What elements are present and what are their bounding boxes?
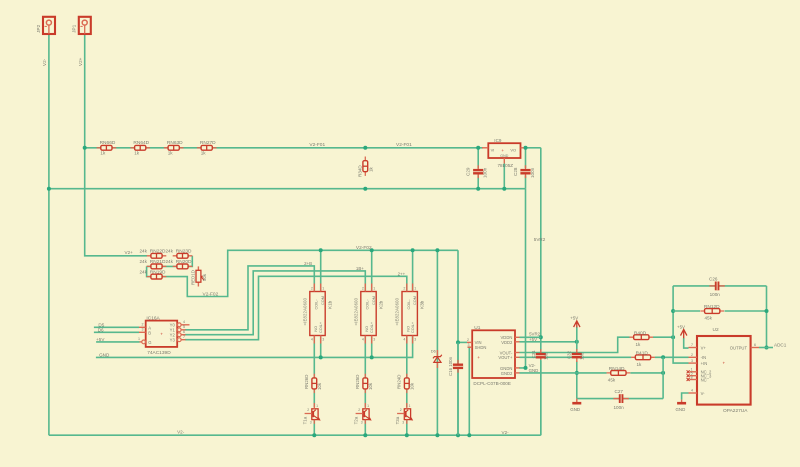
svg-text:2: 2: [307, 408, 309, 412]
svg-text:G: G: [148, 340, 151, 345]
wire feedback left column to +IN: [673, 286, 688, 363]
junction K2 COM: [370, 248, 374, 252]
svg-text:1: 1: [414, 286, 416, 290]
svg-text:COM: COM: [413, 296, 417, 305]
wire net VOUT+ from U1 to R41D: [520, 356, 632, 358]
wire relay contact column x=406.8 to driver: [406, 336, 408, 379]
svg-text:4: 4: [183, 320, 185, 324]
resistor RN27D: [197, 140, 217, 156]
svg-text:RED1D: RED1D: [191, 270, 196, 285]
svg-text:3: 3: [361, 420, 363, 424]
junction driver emitter on V2- rail x=365.3: [363, 433, 367, 437]
zener diode D6: [431, 348, 442, 368]
svg-text:NC: NC: [701, 377, 707, 382]
svg-text:10k: 10k: [368, 382, 373, 390]
svg-text:COIL+: COIL+: [370, 321, 374, 333]
svg-text:1k: 1k: [100, 151, 106, 156]
svg-text:IC16A: IC16A: [146, 316, 160, 322]
resistor RN23D: [166, 249, 193, 259]
svg-text:2: 2: [691, 353, 693, 357]
svg-text:COIL+: COIL+: [319, 321, 323, 333]
svg-text:+: +: [160, 332, 163, 337]
junction C28 top: [524, 146, 528, 150]
supply arrow +5V at op-amp V+: [677, 324, 687, 338]
svg-text:V2+: V2+: [125, 250, 134, 255]
svg-text:R40D: R40D: [634, 330, 647, 336]
svg-text:V2-: V2-: [502, 430, 510, 435]
svg-text:RN20D: RN20D: [176, 259, 192, 265]
svg-text:74AC139D: 74AC139D: [147, 350, 171, 356]
op-amp U2 OPA227UA: [687, 327, 759, 414]
svg-text:50k: 50k: [202, 273, 207, 281]
svg-text:100n: 100n: [530, 167, 535, 178]
svg-text:+IN: +IN: [701, 361, 708, 366]
junction driver emitter on V2- rail x=406.8: [405, 433, 409, 437]
svg-text:10u: 10u: [544, 352, 549, 360]
junction driver emitter on V2- rail x=314.3: [312, 433, 316, 437]
svg-text:4: 4: [691, 389, 693, 393]
svg-text:C28: C28: [513, 167, 518, 176]
wire feedback RN12D line: [673, 310, 700, 312]
svg-text:K2b: K2b: [378, 300, 383, 309]
wire net +5V to IC1 G pin: [96, 341, 139, 343]
junction feedback at RN12D left: [671, 309, 675, 313]
wire net V2-F02 branch to U1 VIN pin: [458, 341, 467, 343]
svg-text:COIL-: COIL-: [314, 299, 318, 310]
svg-text:1: 1: [138, 337, 140, 341]
svg-text:VDD2: VDD2: [501, 340, 513, 345]
capacitor C16: [448, 342, 463, 435]
trimmer RED1D: [191, 266, 207, 286]
svg-text:RN27D: RN27D: [200, 140, 216, 146]
svg-text:V2+: V2+: [78, 57, 83, 66]
svg-text:78L05Z: 78L05Z: [498, 163, 514, 168]
svg-text:VI: VI: [491, 148, 495, 153]
svg-text:=IE822A0600: =IE822A0600: [353, 297, 358, 325]
svg-text:GND: GND: [676, 407, 686, 412]
svg-text:T2a: T2a: [354, 416, 359, 424]
svg-text:4: 4: [362, 337, 364, 341]
junction R34D bottom: [363, 187, 367, 191]
svg-text:V-: V-: [701, 391, 706, 396]
transistor T3a NPN: [395, 403, 413, 424]
resistor RN63D: [164, 140, 184, 156]
junction C29 top: [476, 146, 480, 150]
junction +5V at arrow column: [575, 340, 579, 344]
junction feedback at output: [765, 346, 769, 350]
wire relay K2 coil- to GND rail: [371, 336, 373, 358]
wire op-amp V- to GND: [682, 393, 689, 400]
capacitor C29: [466, 148, 488, 189]
svg-text:K3b: K3b: [420, 300, 425, 309]
supply arrow +5V at C32 column: [570, 316, 580, 328]
svg-text:100n: 100n: [483, 167, 488, 178]
resistor RN12D: [700, 304, 724, 320]
capacitor C32: [566, 349, 584, 362]
capacitor C26: [709, 277, 725, 298]
junction V2-F02 VIN branch: [456, 340, 460, 344]
wire net coil B from IC1 Y2 to relay K2: [185, 271, 365, 335]
svg-text:2: 2: [358, 408, 360, 412]
svg-text:COM: COM: [372, 296, 376, 305]
wire net C27 line from GND to C27 column: [577, 398, 663, 400]
wire net coil C from IC1 Y3 to relay K3: [185, 276, 407, 339]
wire net V2- middle rail under IC9: [49, 188, 526, 190]
svg-text:1k: 1k: [134, 151, 140, 156]
svg-text:RN63D: RN63D: [167, 140, 183, 146]
svg-text:V2-: V2-: [42, 58, 47, 66]
junction R40D at feedback column: [671, 335, 675, 339]
svg-text:24k: 24k: [140, 259, 148, 264]
wire net +5V from U1 VDD to arrow column: [520, 341, 577, 343]
svg-text:1k: 1k: [201, 151, 207, 156]
svg-text:V2-F02: V2-F02: [203, 291, 219, 297]
svg-text:IC9: IC9: [494, 138, 502, 143]
wire net D6 input: [94, 331, 139, 333]
wire relay K2 COM drop from V2-F02: [371, 250, 373, 291]
svg-text:VO: VO: [510, 148, 516, 153]
voltage regulator IC9: [482, 138, 527, 189]
relay K1b reed relay: [302, 284, 332, 344]
junction +5V riser at 5VR2 stub: [539, 335, 543, 339]
svg-text:RN24D: RN24D: [397, 375, 402, 389]
junction U1 GNDN at V2- column: [524, 366, 528, 370]
junction V2-F01 at JP1 wire: [83, 146, 87, 150]
transistor T1a NPN: [303, 403, 321, 424]
svg-text:24k: 24k: [140, 249, 148, 254]
resistor R34D: [358, 157, 374, 178]
svg-text:5VR2: 5VR2: [534, 237, 546, 242]
svg-text:10k: 10k: [410, 382, 415, 390]
resistor RN24D: [397, 374, 415, 393]
svg-text:+5V: +5V: [570, 316, 578, 321]
svg-text:6: 6: [754, 343, 756, 347]
svg-text:C16 100n: C16 100n: [448, 356, 453, 376]
svg-text:45k: 45k: [608, 378, 616, 383]
junction zener branch top: [435, 248, 439, 252]
svg-text:7: 7: [183, 335, 185, 339]
svg-text:V2-F01: V2-F01: [396, 142, 412, 148]
svg-text:3: 3: [373, 337, 375, 341]
wire net V2-F01 top resistor row: [85, 147, 483, 149]
svg-text:2: 2: [400, 408, 402, 412]
resistor RN19D: [140, 269, 167, 279]
svg-text:RN14D: RN14D: [609, 366, 625, 372]
svg-text:RN19D: RN19D: [150, 269, 166, 275]
svg-text:RN26D: RN26D: [304, 375, 309, 389]
wire relay contact column x=314.3 to driver: [313, 336, 315, 379]
junction RN12D right: [765, 309, 769, 313]
svg-text:1: 1: [322, 286, 324, 290]
svg-text:1: 1: [316, 404, 318, 408]
svg-text:1: 1: [367, 404, 369, 408]
svg-text:100n: 100n: [710, 292, 721, 297]
svg-text:4: 4: [311, 337, 313, 341]
svg-text:SHDN: SHDN: [475, 345, 487, 350]
svg-text:6: 6: [183, 330, 185, 334]
wire net SHDN of U1 down to V2- rail: [468, 347, 470, 435]
svg-text:GND: GND: [529, 368, 539, 373]
junction zener branch bottom: [435, 433, 439, 437]
svg-text:2: 2: [311, 286, 313, 290]
svg-text:+: +: [723, 361, 726, 366]
wire net GND rail from IC1 area to relay K3: [96, 336, 413, 358]
svg-text:COIL-: COIL-: [365, 299, 369, 310]
svg-text:Y3: Y3: [170, 338, 176, 343]
svg-text:GND: GND: [500, 154, 508, 158]
svg-text:GND: GND: [570, 407, 580, 412]
wire net 5VR2 stub from U1 VDDN: [520, 336, 541, 338]
resistor RN14D: [607, 366, 631, 383]
svg-text:RN22D: RN22D: [150, 249, 166, 255]
svg-text:NO: NO: [314, 326, 318, 332]
wire divider row 2: [147, 256, 193, 267]
svg-text:NO: NO: [365, 326, 369, 332]
resistor RN20D: [166, 259, 193, 269]
wire net V2-F02 down to U1 VIN: [457, 250, 459, 435]
resistor R40D: [629, 330, 653, 347]
junction GND2 at C27 column: [661, 371, 665, 375]
svg-text:RN25D: RN25D: [355, 375, 360, 389]
svg-text:2+B: 2+B: [304, 261, 312, 266]
svg-text:1B+: 1B+: [356, 266, 364, 271]
wire relay K1 coil- to GND rail: [320, 336, 322, 358]
junction arrow column at GND2 line: [575, 371, 579, 375]
resistor R41D: [631, 350, 655, 366]
wire net GND2 from U1 through RN14D: [520, 372, 607, 374]
svg-text:C26: C26: [709, 277, 718, 282]
svg-text:3: 3: [414, 337, 416, 341]
svg-text:C27: C27: [615, 389, 624, 394]
svg-text:U2: U2: [713, 327, 719, 333]
svg-text:10u: 10u: [580, 352, 585, 360]
svg-text:+: +: [501, 148, 504, 153]
svg-text:45k: 45k: [705, 315, 713, 320]
wire +5V arrow column through cap C32 down to GND: [576, 327, 578, 350]
wire net R40D out to feedback column: [653, 336, 673, 338]
svg-text:2: 2: [362, 286, 364, 290]
svg-text:3: 3: [691, 359, 693, 363]
capacitor C31: [531, 349, 549, 435]
svg-text:T1a: T1a: [303, 416, 308, 424]
svg-text:+5V: +5V: [96, 337, 105, 342]
resistor RN66D: [97, 140, 117, 156]
svg-text:COM: COM: [321, 296, 325, 305]
wire net V2- bottom rail: [49, 434, 541, 436]
svg-text:RN23D: RN23D: [176, 249, 192, 255]
relay K3b reed relay: [395, 284, 425, 344]
wire net V2+ from JP1 down to divider cluster: [85, 34, 147, 256]
connector JP2: [36, 17, 55, 34]
capacitor C27: [613, 389, 628, 410]
wire net D5 input: [94, 326, 139, 328]
wire relay contact column x=365.3 to driver: [364, 336, 366, 379]
wire net +5V riser from IC9 output down to U1: [540, 148, 542, 350]
resistor RN22D: [140, 249, 167, 259]
svg-text:R41D: R41D: [636, 350, 649, 356]
svg-text:2: 2: [142, 323, 144, 327]
junction C16 column on V2- rail: [456, 433, 460, 437]
svg-text:3: 3: [310, 420, 312, 424]
svg-text:D6: D6: [98, 327, 104, 332]
svg-text:VOUT+: VOUT+: [498, 355, 513, 360]
svg-text:1: 1: [373, 286, 375, 290]
svg-text:COIL-: COIL-: [407, 299, 411, 310]
wire relay K3 COM drop from V2-F02: [412, 250, 414, 291]
svg-text:2: 2: [467, 338, 469, 342]
resistor RN25D: [355, 374, 373, 393]
wire net V2- drop to U1 GNDN pin: [519, 189, 526, 368]
junction -IN at C27 column: [661, 355, 665, 359]
junction C29 bottom: [476, 187, 480, 191]
svg-text:C32: C32: [566, 350, 571, 359]
wire net ADC1 op-amp output: [759, 347, 773, 349]
connector JP1: [72, 17, 91, 34]
svg-text:COIL+: COIL+: [411, 321, 415, 333]
svg-text:8: 8: [691, 375, 693, 379]
svg-text:+: +: [477, 355, 480, 360]
svg-text:10k: 10k: [317, 382, 322, 390]
resistor RN64D: [130, 140, 150, 156]
junction K3 COM: [411, 248, 415, 252]
svg-text:7: 7: [691, 343, 693, 347]
wire net V2- from JP2 down left side: [48, 34, 50, 436]
wire C27 column vertical: [662, 357, 664, 398]
wire net V2-F01 from IC9 VO to +5V riser: [525, 147, 541, 149]
svg-text:C31: C31: [531, 350, 536, 359]
svg-text:RN12D: RN12D: [704, 304, 720, 310]
svg-text:3: 3: [402, 420, 404, 424]
junction R34D top: [363, 146, 367, 150]
dc-dc converter U1 DCPL-C07B-000E: [467, 325, 520, 386]
resistor RN26D: [304, 374, 322, 393]
svg-text:V2-: V2-: [177, 429, 185, 434]
svg-text:B: B: [148, 331, 151, 336]
svg-text:K1b: K1b: [327, 300, 332, 309]
svg-text:V2-F01: V2-F01: [309, 142, 325, 148]
svg-text:1k: 1k: [168, 151, 174, 156]
svg-text:RN64D: RN64D: [133, 140, 149, 146]
svg-text:24k: 24k: [140, 269, 148, 274]
junction K1 on GND rail: [319, 355, 323, 359]
wire zener D6 branch from V2-F02 to V2- rail: [436, 250, 438, 435]
svg-text:RN66D: RN66D: [100, 140, 116, 146]
svg-text:2++: 2++: [398, 271, 406, 276]
wire net V2- right riser to cap C31: [540, 361, 542, 435]
svg-text:3: 3: [142, 328, 144, 332]
svg-text:24k: 24k: [166, 249, 174, 254]
svg-text:V+: V+: [701, 345, 707, 350]
wire net -IN from R41D to op-amp: [655, 356, 689, 358]
svg-text:-IN: -IN: [701, 355, 707, 360]
svg-text:RN21D: RN21D: [150, 259, 166, 265]
svg-text:3: 3: [322, 337, 324, 341]
junction SHDN on V2- rail: [467, 433, 471, 437]
svg-text:V2-F02: V2-F02: [356, 245, 372, 251]
svg-text:1k: 1k: [636, 342, 642, 347]
relay K2b reed relay: [353, 284, 383, 344]
svg-text:OPA227UA: OPA227UA: [723, 408, 748, 414]
junction V2- rail at JP2 wire: [47, 187, 51, 191]
svg-text:+5V: +5V: [677, 324, 685, 329]
svg-text:JP1: JP1: [72, 24, 78, 33]
ground symbol GND at C32 column: [570, 399, 581, 412]
wire feedback right column to output: [766, 286, 768, 348]
svg-text:T3a: T3a: [395, 416, 400, 424]
svg-text:1k: 1k: [637, 362, 643, 367]
svg-text:D6: D6: [431, 348, 437, 353]
wire net coil A from IC1 Y1 to relay K1: [185, 266, 314, 330]
ground symbol GND at op-amp V-: [676, 400, 687, 412]
svg-text:+5V: +5V: [529, 337, 537, 342]
svg-text:JP2: JP2: [36, 24, 42, 33]
svg-text:=IE822A0600: =IE822A0600: [302, 297, 307, 325]
svg-text:1: 1: [409, 404, 411, 408]
transistor T2a NPN: [354, 403, 372, 424]
svg-text:DCPL-C07B-000E: DCPL-C07B-000E: [473, 381, 511, 386]
svg-text:100n: 100n: [614, 405, 625, 410]
svg-text:GND2: GND2: [501, 371, 513, 376]
wire divider row 3 and net V2-F02 jog: [147, 250, 458, 296]
wire feedback top line C26: [673, 285, 766, 287]
junction K2 on GND rail: [370, 355, 374, 359]
wire net VOUT- from U1 to R40D: [520, 337, 630, 352]
svg-text:1k: 1k: [369, 166, 374, 172]
svg-text:NO: NO: [406, 326, 410, 332]
svg-text:24k: 24k: [166, 259, 174, 264]
svg-text:OUTPUT: OUTPUT: [730, 345, 748, 350]
svg-text:R34D: R34D: [358, 165, 363, 177]
svg-text:ADC1: ADC1: [774, 342, 787, 347]
wire relay K1 COM drop from V2-F02: [320, 250, 322, 291]
svg-text:4: 4: [403, 337, 405, 341]
svg-text:=IE822A0600: =IE822A0600: [395, 297, 400, 325]
svg-text:3: 3: [468, 343, 470, 347]
svg-text:C29: C29: [466, 167, 471, 176]
resistor RN21D: [140, 259, 167, 269]
junction IC9 GND on rail: [502, 187, 506, 191]
svg-text:5: 5: [183, 325, 185, 329]
svg-text:2: 2: [403, 286, 405, 290]
junction K1 COM: [319, 248, 323, 252]
decoder IC1GA 74AC139: [138, 316, 190, 356]
capacitor C28: [513, 148, 535, 189]
svg-text:GND: GND: [99, 352, 110, 357]
wire op-amp V+ from +5V arrow: [684, 338, 689, 348]
svg-text:U1: U1: [474, 325, 480, 331]
